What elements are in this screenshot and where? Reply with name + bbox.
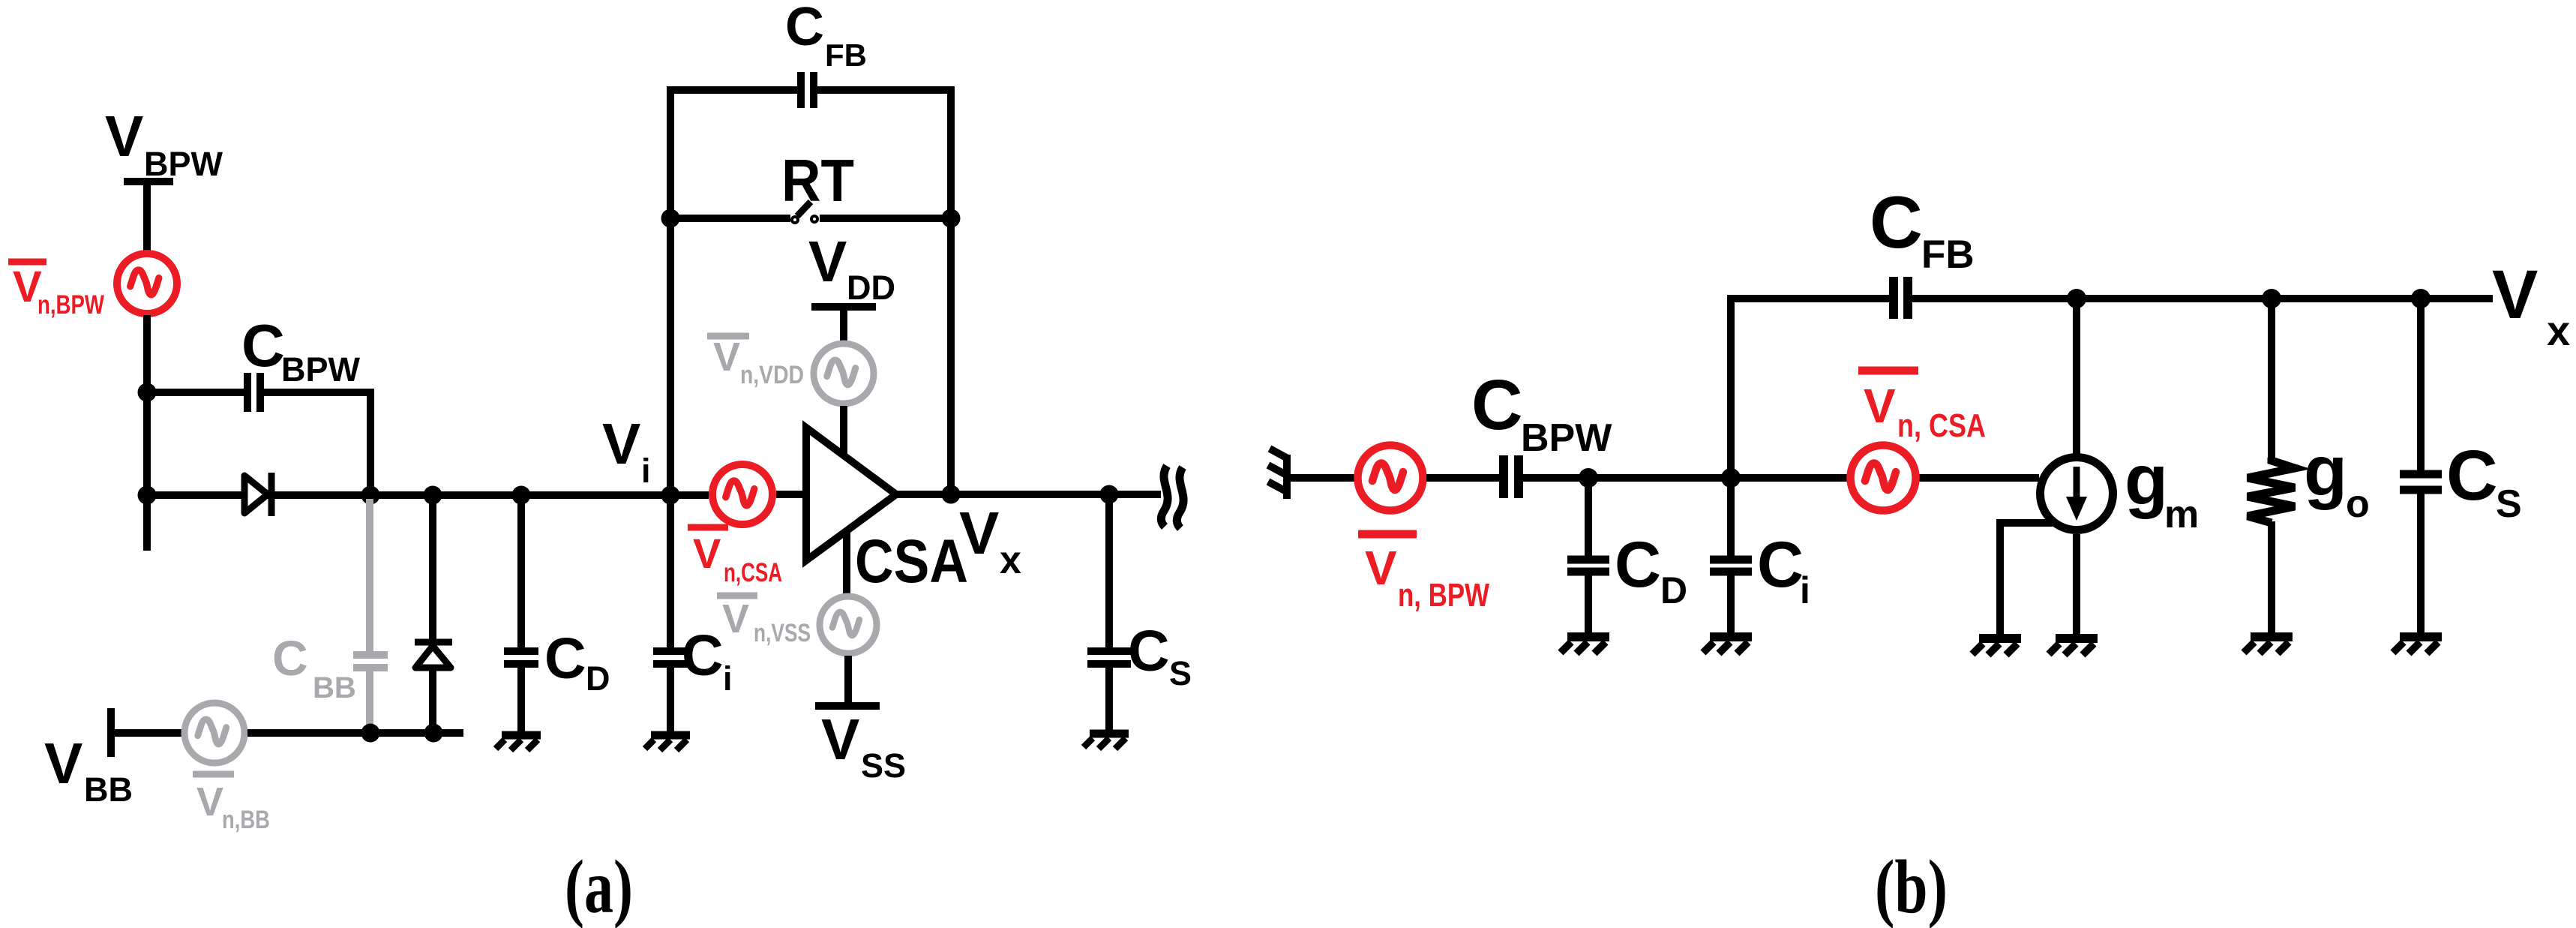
ground g_m left	[1972, 638, 2021, 655]
label C_S (b)	[2446, 436, 2522, 526]
svg-text:V: V	[713, 335, 740, 380]
capacitor C_BPW	[247, 373, 260, 412]
node RT left	[661, 209, 680, 228]
node A (C_BPW/C_BB junction)	[361, 486, 380, 505]
svg-text:V: V	[693, 530, 721, 577]
svg-text:S: S	[2496, 482, 2522, 526]
ground C_D	[496, 735, 541, 750]
capacitor C_i	[653, 651, 688, 664]
switch RT line right	[820, 215, 951, 222]
svg-text:DD: DD	[847, 269, 895, 307]
terminal V_BB bar	[107, 708, 115, 757]
wire C_D (b) lower	[1585, 575, 1592, 634]
label C_D	[544, 626, 610, 698]
terminal V_SS bar	[815, 702, 880, 710]
label V_SS	[821, 707, 906, 785]
label V_n,BPW	[8, 262, 104, 320]
ground g_o	[2244, 637, 2293, 653]
label V_DD	[808, 230, 895, 307]
svg-text:V: V	[2492, 257, 2538, 333]
wire g_m return stub	[2000, 523, 2053, 635]
capacitor C_D	[504, 651, 538, 664]
output wire	[896, 491, 1161, 498]
label C_BPW (b)	[1471, 365, 1612, 460]
capacitor C_D (b)	[1567, 560, 1609, 572]
capacitor C_FB	[801, 72, 814, 108]
svg-text:g: g	[2125, 440, 2168, 520]
wire C_S (b) lower	[2417, 494, 2425, 634]
top wire C_FB (b) right	[1912, 295, 2493, 302]
svg-text:BPW: BPW	[281, 350, 361, 389]
ground C_i (b)	[1703, 637, 1752, 653]
label g_o	[2304, 431, 2370, 526]
wire V_SS upper	[843, 531, 850, 596]
label V_n,VDD	[707, 335, 804, 389]
svg-text:FB: FB	[825, 38, 867, 73]
source V_n,CSA (red AC source)	[712, 464, 772, 524]
label V_x	[959, 500, 1021, 582]
svg-text:V: V	[105, 104, 143, 169]
label V_BB	[44, 731, 133, 809]
svg-text:n,CSA: n,CSA	[724, 558, 782, 587]
wire source down to stub	[143, 315, 151, 551]
svg-text:V: V	[1864, 379, 1896, 433]
ground C_D (b)	[1561, 637, 1609, 653]
svg-text:V: V	[44, 731, 82, 796]
source V_n,BPW (red AC source)	[117, 254, 177, 314]
svg-text:V: V	[196, 779, 223, 824]
svg-text:V: V	[1365, 541, 1397, 595]
svg-text:i: i	[723, 659, 733, 698]
wire diode branch upper	[429, 495, 436, 639]
main wire (b)	[1523, 474, 2039, 482]
capacitor C_S (b)	[2400, 474, 2442, 490]
switch RT contacts and blade	[792, 202, 817, 223]
capacitor C_S	[1087, 651, 1131, 664]
svg-text:n, CSA: n, CSA	[1897, 407, 1986, 444]
svg-text:C: C	[1757, 529, 1804, 601]
wire V_DD to source	[840, 307, 847, 341]
node C (C_D junction)	[512, 486, 531, 505]
node g_m top	[2067, 289, 2086, 308]
wire g_m upper	[2073, 299, 2080, 456]
op-amp CSA triangle	[806, 428, 896, 560]
label C_BPW	[241, 312, 361, 389]
capacitor C_BB (grey)	[353, 655, 388, 668]
wire feedback top right	[817, 90, 951, 495]
svg-text:BPW: BPW	[144, 145, 223, 183]
svg-text:SS: SS	[861, 746, 906, 785]
wire C_i lower	[667, 668, 674, 732]
label V_n,VSS	[717, 596, 811, 647]
diode D1 (series, pointing right)	[244, 473, 271, 516]
wire C_FB (b) riser	[1731, 299, 1889, 478]
wire g_m lower	[2073, 534, 2080, 635]
ground C_S	[1084, 734, 1129, 749]
svg-text:RT: RT	[781, 147, 854, 214]
node B (diode branch junction)	[424, 486, 442, 505]
wire C_BPW branch left	[147, 389, 244, 396]
svg-text:V: V	[808, 230, 847, 294]
wire g_o upper	[2268, 299, 2275, 461]
svg-text:(b): (b)	[1875, 845, 1948, 928]
terminal V_DD bar	[811, 303, 876, 311]
wire V_n,VDD to op-amp	[840, 406, 847, 456]
current source g_m	[2041, 458, 2113, 530]
svg-text:n, BPW: n, BPW	[1398, 577, 1489, 614]
node g_o top	[2262, 289, 2281, 308]
node dot left/C_BPW	[138, 383, 157, 402]
capacitor C_BPW (b)	[1504, 455, 1519, 498]
node diode bottom	[424, 724, 443, 743]
svg-text:n,VSS: n,VSS	[754, 619, 811, 647]
wire C_i (b) lower	[1727, 575, 1735, 634]
svg-text:S: S	[1169, 654, 1192, 692]
label g_m	[2125, 440, 2199, 536]
wire C_i upper	[667, 495, 674, 648]
svg-text:FB: FB	[1921, 233, 1975, 277]
svg-text:BPW: BPW	[1521, 416, 1612, 460]
source V_n,VSS (grey AC source)	[820, 596, 877, 653]
svg-text:x: x	[2547, 307, 2570, 354]
label V_x (b)	[2492, 257, 2570, 354]
svg-text:V: V	[959, 500, 999, 566]
svg-text:C: C	[1615, 529, 1661, 601]
wire C_BB grey bottom	[366, 671, 373, 733]
wire C_BPW branch right	[264, 392, 370, 495]
svg-text:V: V	[722, 596, 749, 641]
svg-text:C: C	[1870, 181, 1923, 263]
wire break squiggle	[1161, 466, 1183, 528]
wire feedback left vertical	[670, 90, 797, 495]
label V_i	[602, 412, 651, 490]
switch RT line left	[670, 215, 790, 222]
terminal V_BPW bar	[124, 178, 173, 185]
label V_n,CSA (b)	[1858, 371, 1986, 444]
svg-text:CSA: CSA	[855, 527, 968, 596]
node C_BB bottom	[361, 724, 380, 743]
wire C_D upper	[517, 495, 525, 648]
wire C_S upper	[1105, 494, 1113, 648]
svg-text:(a): (a)	[565, 845, 633, 928]
label C_FB	[785, 0, 867, 73]
wire V_SS lower	[844, 656, 852, 706]
svg-text:n,BB: n,BB	[222, 806, 270, 834]
source V_n,VDD (grey AC source)	[814, 344, 874, 404]
ground C_S (b)	[2393, 637, 2442, 653]
node V_x out	[942, 485, 961, 504]
source V_n,BPW (b) (red AC source)	[1358, 446, 1423, 511]
label C_D (b)	[1615, 529, 1687, 611]
svg-text:BB: BB	[313, 671, 356, 704]
label V_n,BB	[193, 774, 270, 834]
svg-text:n,VDD: n,VDD	[740, 361, 804, 389]
node dot left/main	[138, 486, 157, 505]
label V_n,CSA	[688, 527, 782, 587]
svg-text:C: C	[2446, 436, 2498, 515]
svg-text:C: C	[1471, 365, 1523, 445]
node C_S junction	[1100, 485, 1119, 504]
wire C_S (b) upper	[2417, 299, 2425, 471]
ground g_m right	[2049, 638, 2098, 655]
svg-text:D: D	[1660, 569, 1687, 611]
wire C_D (b) upper	[1585, 478, 1592, 556]
wire C_S lower	[1105, 668, 1113, 731]
main input line	[147, 491, 709, 499]
label V_n,BPW (b)	[1358, 534, 1489, 614]
resistor g_o	[2248, 458, 2295, 523]
wire g_o lower	[2268, 521, 2275, 634]
svg-text:o: o	[2346, 482, 2370, 526]
node C_D (b)	[1579, 468, 1598, 488]
svg-text:V: V	[602, 412, 640, 476]
wire input (b)	[1288, 474, 1355, 482]
svg-text:C: C	[544, 626, 586, 691]
node V_i	[661, 486, 680, 505]
svg-text:n,BPW: n,BPW	[37, 290, 104, 320]
wire V_BB to source	[111, 729, 183, 737]
label C_i (b)	[1757, 529, 1810, 611]
svg-text:BB: BB	[84, 770, 133, 809]
label C_i	[682, 623, 733, 698]
svg-text:C: C	[682, 623, 724, 688]
svg-text:i: i	[641, 452, 651, 490]
wire break chevrons left	[1268, 449, 1288, 499]
wire source to op-amp	[776, 491, 806, 498]
svg-text:C: C	[241, 312, 285, 379]
label C_BB	[272, 630, 356, 704]
label C_S	[1128, 619, 1192, 692]
capacitor C_i (b)	[1710, 560, 1752, 572]
svg-text:g: g	[2304, 431, 2347, 511]
svg-text:V: V	[821, 707, 859, 772]
label C_FB (b)	[1870, 181, 1975, 277]
svg-text:C: C	[1128, 619, 1170, 683]
svg-text:m: m	[2164, 493, 2199, 536]
wire source to C_BPW	[1426, 474, 1500, 482]
wire diode branch lower	[429, 668, 436, 733]
wire C_D lower	[517, 668, 525, 732]
svg-text:C: C	[272, 630, 308, 686]
svg-text:D: D	[586, 659, 610, 698]
diode D2 (shunt, pointing up)	[415, 642, 452, 668]
source V_n,CSA (b) (red AC source)	[1851, 446, 1916, 511]
node RT right	[942, 209, 961, 228]
bottom wire V_BB line	[247, 729, 463, 737]
node C_S (b) top	[2411, 289, 2431, 308]
svg-text:x: x	[1000, 539, 1021, 582]
label V_BPW	[105, 104, 223, 183]
wire C_i (b) upper	[1727, 478, 1735, 556]
node C_i (b)	[1721, 468, 1741, 488]
svg-text:C: C	[785, 0, 824, 57]
wire V_BPW to source	[143, 182, 151, 252]
source V_n,BB (grey AC source)	[184, 703, 244, 763]
wire C_BB grey top	[366, 499, 373, 653]
capacitor C_FB (b)	[1894, 277, 1908, 319]
ground C_i	[645, 735, 690, 750]
svg-text:i: i	[1800, 569, 1810, 611]
